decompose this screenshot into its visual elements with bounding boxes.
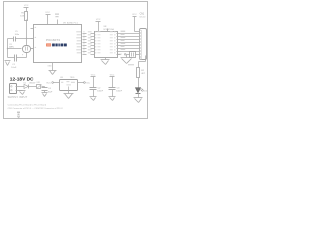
- label VR1: [36, 82, 41, 84]
- label 12-18V DC: [10, 77, 34, 83]
- net flag VCC row: [117, 54, 129, 57]
- label LD1: [143, 91, 148, 93]
- svg-text:PIC16F73: PIC16F73: [46, 38, 60, 42]
- wire MCLR to C5: [16, 37, 27, 40]
- zener VR1: [37, 85, 42, 89]
- connector CN1 box: [140, 29, 147, 60]
- driver IC U2 box: [95, 32, 118, 58]
- svg-text:VCC: VCC: [85, 82, 90, 84]
- pin stubs U2 right: [110, 31, 121, 54]
- pin stubs U1 left: [31, 27, 37, 49]
- wire C1 to ground: [8, 56, 15, 59]
- label GND (U1): [47, 66, 52, 68]
- connector CN2: [10, 84, 17, 94]
- sheet border: [4, 2, 148, 119]
- svg-text:10K: 10K: [20, 16, 24, 18]
- wire C5 to rail: [8, 37, 14, 40]
- diode D1: [24, 84, 29, 88]
- power flag VCC (R1 top): [24, 5, 29, 12]
- ground (C3): [109, 97, 116, 101]
- ground (FB1): [121, 58, 133, 64]
- wire R2 to LED: [137, 78, 140, 88]
- svg-text:CN1: CN1: [140, 13, 145, 15]
- wire C3 to ground: [111, 90, 114, 97]
- label D1 1N4007: [24, 82, 36, 84]
- label C1 10uF: [11, 64, 17, 69]
- wire CN1 loop to LED chain: [139, 56, 146, 68]
- label R2 4K7: [141, 70, 146, 75]
- note key column: [17, 112, 20, 119]
- svg-text:10uF: 10uF: [48, 91, 53, 93]
- ground (LD1): [134, 98, 143, 103]
- label PIC16F73: [46, 38, 60, 42]
- power flag VCC (C2 top): [91, 74, 96, 87]
- ground (C4): [42, 93, 48, 97]
- svg-text:VCC: VCC: [46, 82, 51, 84]
- label CN1: [139, 13, 146, 18]
- svg-text:1N4007: 1N4007: [29, 82, 36, 84]
- wires U2 to CN1 with net labels: [121, 31, 140, 52]
- wire FB1 gnd stem: [125, 55, 128, 58]
- wire REG1 gnd stem: [67, 91, 70, 94]
- ground (C2): [90, 97, 97, 101]
- power flag VCC (U2 top): [96, 19, 101, 32]
- svg-text:VCC: VCC: [96, 19, 101, 21]
- label C4 10uF: [48, 88, 53, 93]
- power flag VCC (CN1 top): [132, 14, 139, 32]
- pin stub U2 top: [106, 29, 109, 32]
- wire C2 to ground: [92, 90, 95, 97]
- svg-text:12-18V DC: 12-18V DC: [10, 77, 34, 83]
- logo navy blocks: [52, 44, 67, 47]
- ground (C1): [5, 61, 11, 66]
- ground (U1): [49, 71, 57, 75]
- resonator X1: [23, 46, 31, 53]
- svg-text:VCC: VCC: [24, 5, 29, 7]
- capacitor C3: [109, 88, 116, 90]
- wire LED to ground: [137, 94, 140, 98]
- wire X1 to U1 OSC: [31, 47, 34, 50]
- svg-text:100nF: 100nF: [97, 91, 104, 93]
- op IC U1 box: [34, 25, 82, 63]
- label C3 100nF: [116, 87, 123, 92]
- connector CN1 pins: [140, 31, 142, 60]
- capacitor C2: [90, 88, 97, 90]
- wire MCLR to U1: [27, 37, 34, 40]
- svg-text:10uF: 10uF: [11, 67, 17, 69]
- note line 1: [8, 104, 47, 107]
- pin stubs U1 right with labels: [76, 31, 86, 54]
- wire CN2 pin1 to D1: [16, 85, 25, 88]
- label 8MHz: [128, 63, 134, 66]
- svg-text:VCC: VCC: [45, 12, 50, 14]
- note line 2: [8, 107, 64, 110]
- logo mikro red block: [46, 44, 51, 47]
- wire C1 node left segment: [17, 56, 27, 59]
- wire rail to X1: [8, 47, 22, 50]
- ground (U2): [101, 60, 110, 65]
- label LM 7805: [60, 77, 75, 79]
- wire X1 bottom: [25, 53, 28, 58]
- svg-text:IDC10: IDC10: [139, 17, 146, 19]
- ferrite bead FB1: [130, 52, 136, 58]
- capacitor C4: [41, 84, 47, 90]
- capacitor C5: [14, 37, 16, 42]
- regulator inner marks: [61, 81, 75, 90]
- label C2 100nF: [97, 87, 104, 92]
- resistor R2: [137, 68, 140, 78]
- net labels U1-U2: [88, 31, 92, 53]
- pin stubs U2 left: [91, 31, 101, 54]
- wire C4 to ground: [43, 91, 46, 93]
- label R1 10K: [20, 12, 25, 17]
- wire FB1 to CN1: [136, 53, 140, 56]
- label VR AGND P1.0: [63, 22, 79, 25]
- node rail OSC junction: [7, 48, 8, 49]
- svg-text:VR: VR: [63, 23, 66, 25]
- wire R1 to X1: [25, 20, 28, 46]
- svg-text:GND: GND: [47, 66, 52, 68]
- power flag VCC (U1 top): [45, 12, 50, 24]
- svg-text:VCC: VCC: [132, 14, 137, 16]
- label X1 4MHz: [9, 44, 14, 49]
- wire ground rail left: [6, 39, 9, 58]
- ground (CN2): [19, 91, 26, 95]
- net flag VCC (REG1 out): [78, 82, 91, 85]
- pin stub U1 top (OSC): [55, 14, 59, 25]
- svg-text:100nF: 100nF: [116, 91, 123, 93]
- label C5 100nF: [15, 31, 19, 36]
- net flag VCC (REG1 in): [46, 82, 59, 85]
- ground (REG1): [64, 94, 74, 99]
- capacitor C1: [15, 54, 24, 62]
- wire U2 gnd stem: [104, 58, 107, 60]
- resistor R1: [25, 12, 28, 21]
- svg-text:VCC: VCC: [117, 54, 122, 56]
- label U2 name: [103, 26, 114, 31]
- power flag VCC (C3 top): [110, 74, 115, 87]
- LED LD1: [135, 88, 143, 94]
- node MCLR junction: [26, 38, 27, 39]
- svg-text:X1: X1: [9, 44, 11, 46]
- regulator REG1 box: [60, 80, 78, 91]
- svg-text:100n: 100n: [15, 34, 19, 36]
- label SUPPLY INPUT: [8, 95, 28, 99]
- svg-text:LM: LM: [60, 77, 63, 79]
- wire VR1 to C4: [42, 85, 45, 88]
- wire CN2 pin2 to ground: [16, 89, 23, 92]
- wire D1 to VR1: [29, 85, 37, 88]
- wire U1 gnd stem: [51, 63, 54, 71]
